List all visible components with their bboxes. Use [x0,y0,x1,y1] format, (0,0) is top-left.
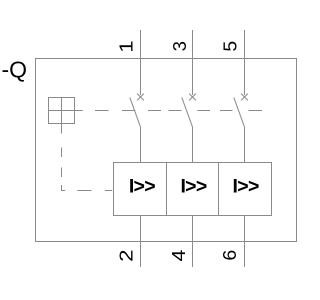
trip unit divider 2 [218,163,220,216]
svg-text:3: 3 [169,41,190,51]
contact pole 2 blade [182,97,193,127]
contact pole 2 breaker cross (x) [189,94,196,101]
wire: terminal 1 top lead [140,30,142,95]
operating mechanism cross vertical line [61,98,63,134]
svg-text:-Q: -Q [2,57,28,83]
wire: pole 3 mid lead [244,127,246,163]
svg-text:I>>: I>> [129,175,155,197]
wire: pole 2 mid lead [192,127,194,163]
dashed mechanical linkage line [95,110,262,112]
operating mechanism cross horizontal line [49,110,83,112]
dashed trip linkage line [62,134,114,191]
svg-text:I>>: I>> [180,175,206,197]
svg-text:2: 2 [117,250,137,262]
svg-text:1: 1 [117,40,137,52]
wire: terminal 3 top lead [192,30,194,95]
contact pole 3 breaker cross (x) [241,94,248,101]
wire: terminal 5 top lead [244,30,246,95]
wire: terminal 6 bottom lead [244,216,246,268]
wire: terminal 2 bottom lead [140,216,142,268]
wire: terminal 4 bottom lead [192,216,194,268]
svg-text:6: 6 [221,250,241,261]
trip unit divider 1 [166,163,168,216]
contact pole 1 breaker cross (x) [137,94,144,101]
wire: pole 1 mid lead [140,127,142,163]
svg-text:4: 4 [169,250,189,262]
contact pole 3 blade [234,97,245,127]
svg-text:5: 5 [221,41,241,52]
svg-text:I>>: I>> [233,175,259,197]
circuit breaker -Q enclosure outline [36,59,297,242]
overcurrent trip unit box row [114,163,272,216]
operating mechanism square [49,98,75,124]
contact pole 1 blade [130,97,141,127]
